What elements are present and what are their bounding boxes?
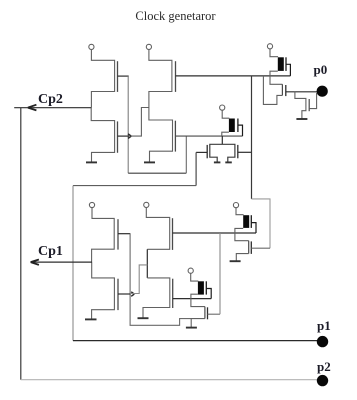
transistor M7 (pass pair right) gate bar: [237, 145, 239, 158]
ground (inverter-4): [138, 317, 149, 319]
transistor M16 (output pass, bottom): [191, 307, 207, 327]
wire M14 gate lead: [173, 298, 212, 300]
wire M11 gate lead: [118, 233, 130, 235]
wire M2 gate lead: [118, 135, 130, 137]
wire mid bus: [219, 233, 221, 314]
transistor M9 (p0 driver): [263, 76, 285, 105]
wire branch inv4 node to inv3 gate bus: [130, 265, 147, 294]
ground (pass pair right): [225, 161, 232, 163]
transistor M10 (bootstrap, below p0): [295, 92, 317, 119]
wire p0 line (M9 gate to terminal): [286, 91, 317, 93]
ground (inverter-3): [85, 318, 97, 320]
ground (inverter-1): [86, 161, 97, 163]
wire M12 gate lead: [118, 293, 131, 295]
transistor M3 (inverter-2 pull-up): [146, 44, 175, 108]
wire M5 output to pass pair: [221, 136, 223, 144]
wire M3 gate lead long line to top-right node: [176, 75, 291, 77]
label p2: [317, 360, 331, 373]
node arrow into inv1 gates: [128, 134, 131, 139]
wire inverter-4 output down: [146, 249, 148, 278]
ground (M10): [296, 118, 307, 120]
wire M4 gate lead / phase node line: [175, 135, 242, 137]
wire inv1 gate node to inv2 output: [131, 108, 149, 137]
transistor M14 (inverter-4 pull-down): [143, 278, 173, 318]
label p1: [317, 319, 331, 332]
transistor M4 (inverter-2 pull-down): [149, 108, 176, 162]
ground (M18): [230, 260, 241, 262]
transistor M13 (inverter-4 pull-up): [144, 202, 173, 250]
wire Cp2 output line: [14, 107, 91, 109]
label p0: [314, 63, 328, 76]
wire M7 gate lead: [238, 151, 252, 153]
wire inv1/inv2 gate bus: [127, 76, 129, 173]
terminal dot p2: [317, 375, 328, 386]
wire Cp1 output line: [31, 261, 92, 263]
wire right bus from top node down: [251, 76, 253, 199]
transistor M12 (inverter-3 pull-down): [92, 262, 118, 319]
transistor M18 (output pass, right): [236, 241, 251, 261]
transistor M2 (inverter-1 pull-down): [91, 108, 117, 162]
transistor M1 (inverter-1 pull-up): [89, 44, 118, 107]
wire p2 line: [21, 379, 323, 381]
ground (pass pair left): [214, 161, 221, 163]
wire M13 gate lead long line to depl-3 node: [173, 232, 257, 234]
transistor M8 (depletion load, top right): [267, 44, 290, 85]
wire M6 gate lead: [196, 151, 207, 153]
wire p1 line: [73, 340, 322, 342]
node arrow into inv3 gates: [131, 292, 134, 297]
label Cp2: [38, 93, 63, 107]
transistor M11 (inverter-3 pull-up): [89, 202, 118, 262]
ground (M16): [186, 327, 197, 329]
wire p1 feed path: [195, 152, 197, 185]
terminal dot p1: [317, 336, 328, 347]
transistor M17 (depletion load, right): [233, 203, 256, 241]
arrow Cp1: [31, 260, 39, 265]
wire left bus (Cp2 node down to p2): [20, 108, 22, 380]
wire M1 gate lead: [118, 75, 129, 77]
terminal dot p0: [317, 86, 328, 97]
transistor M6 (pass pair left): [207, 144, 235, 162]
ground (inverter-2): [144, 161, 155, 163]
label Cp1: [38, 245, 63, 259]
wire inv3/inv4 gate bus: [130, 234, 191, 326]
title: [0, 9, 354, 24]
transistor M15 (depletion load, bottom middle): [188, 268, 211, 307]
transistor M5 (depletion load, middle): [220, 105, 243, 137]
wire M16 gate lead: [208, 313, 221, 315]
arrow Cp2: [28, 105, 37, 111]
wire M18 gate lead: [251, 247, 270, 249]
